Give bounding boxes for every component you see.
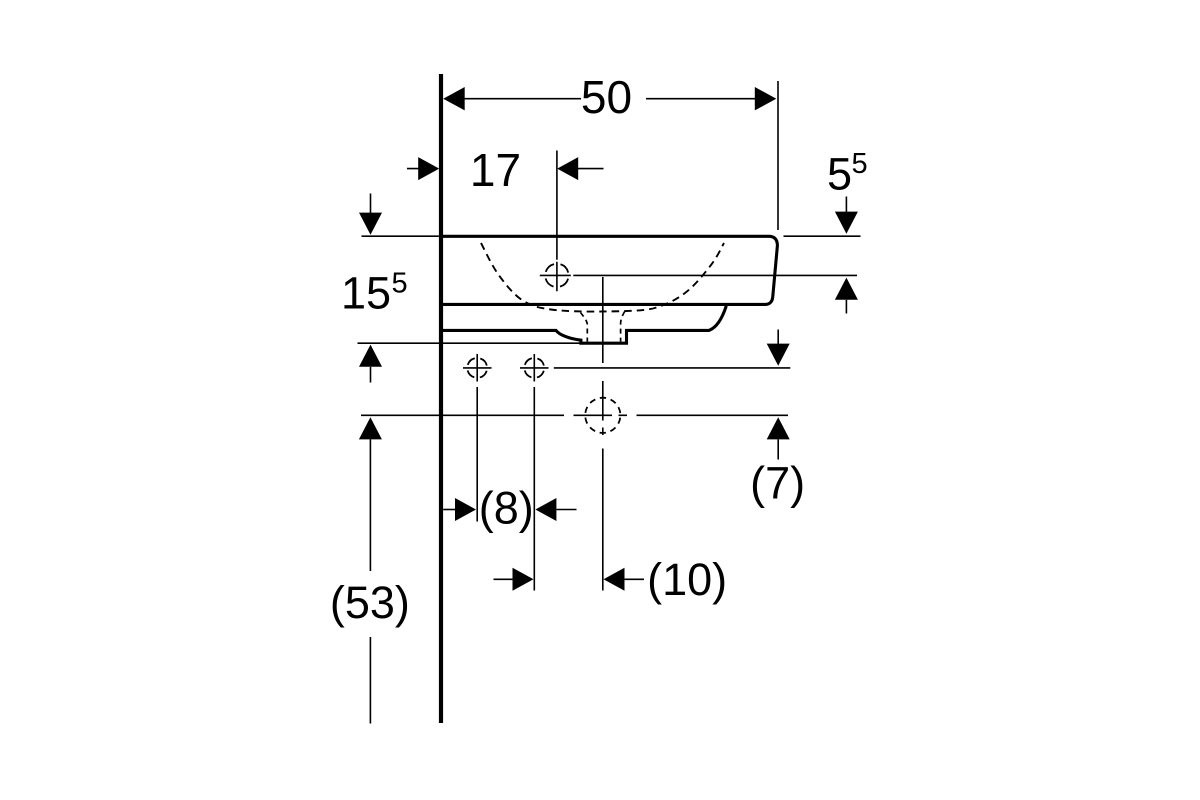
dimension 15-5 top arrowhead (down) xyxy=(359,213,382,235)
dimension 8 left tail xyxy=(443,509,455,511)
dimension 17 left arrowhead xyxy=(418,157,439,180)
fixing hole left cross xyxy=(463,354,492,382)
hidden drain funnel right (dashed) xyxy=(621,312,625,342)
dimension 10 right tail xyxy=(625,578,645,580)
dimension 10 left arrowhead xyxy=(513,568,534,591)
drain centerline vertical xyxy=(602,277,604,591)
dimension 50 right extension line xyxy=(777,81,779,230)
dimension 7 top arrowhead (down) xyxy=(767,344,790,366)
fixing hole left dashed circle xyxy=(467,358,487,378)
dimension 53 arrowhead (up) xyxy=(359,417,382,439)
faucet height reference line xyxy=(573,274,857,276)
svg-text:5: 5 xyxy=(827,149,852,200)
dimension 8 right tail xyxy=(556,509,576,511)
dimension 5-5 bottom arrow stem xyxy=(845,300,847,314)
dimension 5-5 top arrowhead (down) xyxy=(835,212,858,234)
hidden bowl curve (dashed) xyxy=(481,243,724,312)
svg-text:(53): (53) xyxy=(330,577,410,628)
svg-text:17: 17 xyxy=(470,144,521,196)
dimension 5-5 reference line at basin top right xyxy=(784,235,861,237)
dimension 7 bottom arrowhead (up) xyxy=(767,417,790,439)
dimension 17 line tails xyxy=(407,168,604,170)
drain height reference line xyxy=(361,414,788,416)
dimension 10 left tail xyxy=(494,578,514,580)
faucet hole centerline horizontal xyxy=(540,274,571,276)
dimension 50 line xyxy=(464,98,755,100)
dimension 15-5 bottom arrowhead (up) xyxy=(359,345,382,367)
dimension 8 left arrowhead xyxy=(455,498,476,521)
dimension 7 top arrow stem xyxy=(777,330,779,345)
dimension 8 right arrowhead xyxy=(535,498,556,521)
fixing hole right extension line down xyxy=(533,387,535,591)
dimension 53 line xyxy=(369,439,371,723)
svg-text:50: 50 xyxy=(581,71,632,123)
svg-text:(8): (8) xyxy=(479,483,534,534)
drain outlet dashed circle xyxy=(585,398,620,433)
dimension 50 right arrowhead xyxy=(755,87,777,110)
dimension 7 bottom arrow stem xyxy=(777,439,779,459)
trap bottom reference line xyxy=(358,342,582,344)
wall mounting line xyxy=(439,74,443,723)
fixing holes height reference line xyxy=(554,367,791,369)
svg-text:(7): (7) xyxy=(750,458,805,509)
fixing hole right dashed circle xyxy=(524,358,544,378)
dimension 5-5 top arrow stem xyxy=(845,197,847,213)
svg-text:15: 15 xyxy=(341,268,391,319)
basin lower shelf and trap outline xyxy=(443,306,726,343)
fixing hole left extension line down xyxy=(476,387,478,522)
dimension 15-5 top arrow stem xyxy=(370,194,372,214)
faucet hole centerline vertical / dim 17 extension xyxy=(556,151,558,292)
svg-text:5: 5 xyxy=(852,148,868,180)
fixing hole right cross xyxy=(520,354,549,382)
svg-text:(10): (10) xyxy=(647,554,727,605)
dimension 15-5 reference line at basin top left xyxy=(362,235,439,237)
faucet hole dashed circle xyxy=(545,264,568,287)
svg-text:5: 5 xyxy=(392,267,408,299)
basin body outline xyxy=(443,236,777,304)
dimension 10 right arrowhead xyxy=(604,568,625,591)
dimension 5-5 bottom arrowhead (up) xyxy=(835,278,858,300)
dimension 15-5 bottom arrow stem xyxy=(370,367,372,383)
hidden drain funnel left (dashed) xyxy=(581,313,588,342)
dimension 17 right arrowhead xyxy=(557,157,578,180)
dimension 50 left arrowhead xyxy=(443,87,465,110)
